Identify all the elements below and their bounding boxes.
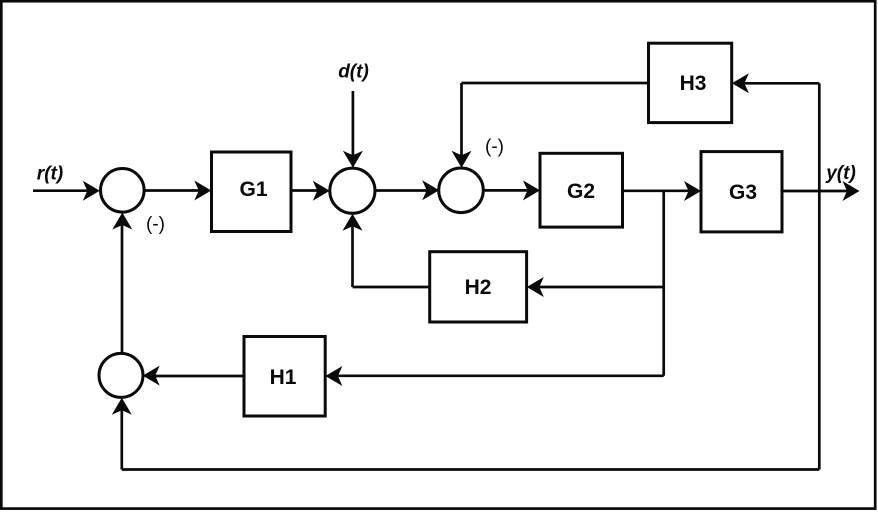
svg-text:H2: H2 (465, 276, 492, 299)
svg-text:H1: H1 (270, 366, 297, 389)
svg-text:r(t): r(t) (37, 164, 63, 185)
svg-text:(-): (-) (485, 137, 504, 158)
svg-text:G2: G2 (567, 180, 595, 203)
svg-text:H3: H3 (680, 72, 707, 95)
svg-text:y(t): y(t) (825, 163, 856, 184)
svg-text:d(t): d(t) (338, 62, 369, 83)
svg-text:(-): (-) (146, 214, 165, 235)
svg-text:G1: G1 (239, 178, 267, 201)
svg-text:G3: G3 (729, 181, 757, 204)
